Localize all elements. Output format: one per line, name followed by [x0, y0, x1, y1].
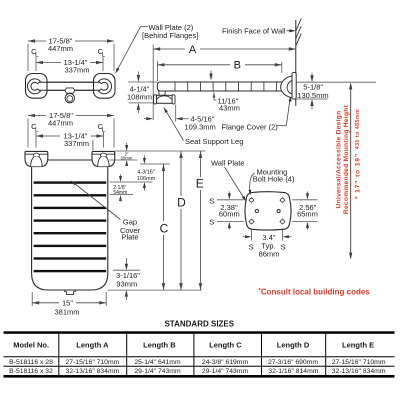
svg-text:32-13/16" 834mm: 32-13/16" 834mm [332, 368, 386, 375]
svg-text:447mm: 447mm [48, 44, 73, 53]
svg-text:Length B: Length B [143, 340, 176, 349]
svg-text:430 to 485mm: 430 to 485mm [355, 109, 361, 149]
svg-text:27-3/16" 690mm: 27-3/16" 690mm [268, 359, 318, 366]
svg-text:Universal/Accessible Design: Universal/Accessible Design [335, 111, 342, 209]
svg-text:25-1/4" 641mm: 25-1/4" 641mm [134, 359, 181, 366]
svg-text:Recommended Mounting Height: Recommended Mounting Height [343, 104, 350, 214]
svg-text:32-13/16" 834mm: 32-13/16" 834mm [65, 368, 119, 375]
svg-text:106mm: 106mm [137, 176, 156, 182]
svg-text:27-15/16" 710mm: 27-15/16" 710mm [65, 359, 119, 366]
svg-text:L: L [101, 52, 105, 59]
svg-text:L: L [35, 52, 39, 59]
svg-text:B-518116 x 28: B-518116 x 28 [9, 359, 53, 366]
svg-text:43mm: 43mm [219, 104, 240, 113]
svg-text:Length A: Length A [76, 340, 109, 349]
svg-text:S: S [209, 196, 214, 205]
svg-text:Finish Face of Wall: Finish Face of Wall [222, 27, 286, 36]
svg-text:337mm: 337mm [64, 139, 89, 148]
svg-text:* 17" to 19": * 17" to 19" [355, 153, 362, 199]
svg-text:24-3/8" 619mm: 24-3/8" 619mm [202, 359, 249, 366]
svg-text:B: B [234, 60, 241, 72]
svg-text:Wall Plate: Wall Plate [211, 158, 244, 167]
svg-text:29-1/4" 743mm: 29-1/4" 743mm [134, 368, 181, 375]
svg-text:Flange Cover (2): Flange Cover (2) [222, 123, 279, 132]
svg-text:Model No.: Model No. [13, 340, 49, 349]
svg-text:L: L [35, 127, 39, 134]
svg-text:93mm: 93mm [116, 280, 137, 289]
svg-text:Plate: Plate [121, 232, 138, 241]
svg-text:STANDARD SIZES: STANDARD SIZES [164, 319, 234, 328]
svg-text:130.5mm: 130.5mm [297, 91, 328, 100]
svg-text:108mm: 108mm [127, 92, 152, 101]
svg-text:65mm: 65mm [297, 210, 318, 219]
svg-text:D: D [177, 196, 186, 210]
svg-text:32-1/16" 814mm: 32-1/16" 814mm [268, 368, 318, 375]
svg-text:Seat Support Leg: Seat Support Leg [185, 137, 243, 146]
svg-text:54mm: 54mm [113, 190, 127, 196]
svg-text:3-1/16": 3-1/16" [116, 271, 140, 280]
svg-text:60mm: 60mm [219, 210, 240, 219]
svg-text:4-3/16": 4-3/16" [137, 170, 155, 176]
svg-text:109.3mm: 109.3mm [185, 123, 216, 132]
svg-text:E: E [196, 177, 204, 191]
svg-text:S: S [209, 218, 214, 227]
svg-text:447mm: 447mm [48, 119, 73, 128]
svg-text:[Behind Flanges]: [Behind Flanges] [142, 31, 198, 40]
svg-text:337mm: 337mm [64, 66, 89, 75]
svg-text:Length E: Length E [342, 340, 374, 349]
svg-text:A: A [189, 44, 197, 56]
svg-text:381mm: 381mm [54, 307, 79, 316]
svg-text:5-1/8": 5-1/8" [303, 82, 323, 91]
svg-text:Length C: Length C [209, 340, 242, 349]
svg-text:S: S [248, 242, 253, 251]
svg-text:86mm: 86mm [259, 249, 280, 258]
svg-text:27-15/16" 710mm: 27-15/16" 710mm [332, 359, 386, 366]
svg-text:29-1/4" 743mm: 29-1/4" 743mm [202, 368, 249, 375]
svg-text:*Consult local building codes: *Consult local building codes [259, 287, 371, 296]
svg-text:15": 15" [62, 298, 73, 307]
svg-text:B-518116 x 32: B-518116 x 32 [9, 368, 53, 375]
svg-text:Length D: Length D [277, 340, 310, 349]
svg-text:S: S [280, 242, 285, 251]
svg-text:50mm: 50mm [121, 155, 133, 160]
svg-text:Bolt Hole (4): Bolt Hole (4) [253, 174, 295, 183]
svg-text:C: C [160, 221, 169, 235]
